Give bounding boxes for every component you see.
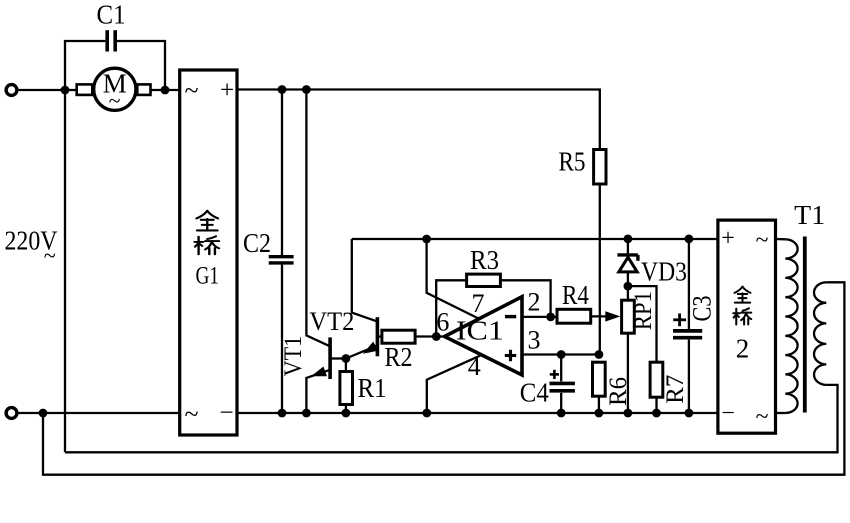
node pin3/R5/R6: [595, 350, 604, 359]
resistor R7: [650, 362, 663, 413]
node VD3 top: [624, 235, 633, 244]
svg-text:R2: R2: [385, 342, 413, 372]
svg-text:R1: R1: [358, 373, 387, 403]
svg-text:~: ~: [109, 88, 121, 113]
svg-text:+: +: [220, 77, 234, 104]
svg-text:−: −: [219, 400, 233, 427]
svg-text:~: ~: [184, 400, 198, 429]
node A (motor left junction): [61, 86, 70, 95]
node C3 top: [685, 235, 694, 244]
node C2 top: [278, 85, 287, 94]
svg-text:R7: R7: [662, 375, 689, 404]
svg-text:~: ~: [756, 228, 769, 254]
wire: IC1 pin 7 supply: [427, 239, 480, 319]
svg-text:+: +: [721, 226, 735, 252]
resistor R5: [594, 150, 606, 355]
wire: feedback loop A (secondary bottom to node A): [65, 385, 838, 452]
svg-text:2: 2: [736, 334, 750, 364]
svg-text:3: 3: [528, 326, 541, 355]
wire: J1 to motor left brush: [19, 89, 77, 91]
G1 label qiao: [195, 236, 219, 254]
svg-text:RP1: RP1: [630, 291, 657, 330]
capacitor C1: [107, 30, 115, 51]
R4 wiper arrow: [605, 311, 620, 321]
wire: IC1 pin 3 input: [522, 353, 599, 355]
node pin3/C4: [557, 350, 566, 359]
zener diode VD3: [617, 239, 638, 286]
node RP1 bottom: [624, 409, 633, 418]
node R7 bottom: [652, 409, 661, 418]
svg-text:C2: C2: [243, 228, 271, 258]
wire: R7 branch: [628, 286, 657, 362]
bridge2 label qiao: [733, 308, 751, 324]
capacitor C2: [269, 90, 294, 414]
svg-text:~: ~: [44, 244, 56, 270]
wire: 0V bottom rail G1 to bridge2: [237, 412, 718, 414]
IC1 non-inverting mark: [505, 350, 516, 361]
terminal J2 (AC neutral): [6, 408, 17, 419]
svg-text:G1: G1: [195, 263, 219, 290]
node pin7 branch: [422, 235, 431, 244]
node C4 bottom: [557, 409, 566, 418]
wire: J2 to G1: [19, 412, 180, 414]
node VT1 collector top: [302, 85, 311, 94]
svg-text:−: −: [721, 401, 735, 427]
node C2 bottom: [278, 409, 287, 418]
svg-text:2: 2: [528, 288, 541, 317]
label 220V: [5, 226, 58, 270]
transformer T1 secondary: [814, 282, 826, 385]
svg-text:C1: C1: [97, 0, 126, 30]
wire: C1 right plate to node B: [117, 41, 165, 90]
capacitor C3: [673, 239, 702, 413]
svg-text:R4: R4: [562, 280, 589, 310]
svg-text:~: ~: [756, 404, 769, 430]
svg-text:R3: R3: [470, 245, 499, 275]
svg-text:VT1: VT1: [280, 336, 307, 377]
svg-text:VD3: VD3: [641, 257, 687, 287]
wire: node A up to C1 and down to wire A: [65, 41, 105, 452]
bridge rectifier G1 box: [180, 70, 237, 435]
node B (motor right junction): [161, 86, 170, 95]
node R6 bottom: [595, 409, 604, 418]
node pin 2 / R3 right: [546, 313, 555, 322]
IC1 inverting mark: [505, 315, 516, 318]
wire: IC1 pin 2 output: [522, 316, 557, 318]
node C3 bottom: [685, 409, 694, 418]
node VD3 anode / RP1 / R7: [624, 282, 633, 291]
potentiometer RP1: [622, 286, 635, 413]
node pin 4 bottom: [422, 409, 431, 418]
terminal J1 (AC live): [6, 85, 17, 96]
T1 core: [803, 237, 807, 413]
resistor R2: [379, 330, 444, 343]
node VT1 base / VT2 emitter / R1 top: [342, 354, 351, 363]
resistor R6: [593, 362, 606, 413]
svg-text:VT2: VT2: [309, 307, 354, 336]
node VT1 emitter bottom: [302, 409, 311, 418]
transistor VT2: [346, 239, 379, 359]
svg-text:R6: R6: [605, 377, 632, 406]
wire: IC1 pin 4 supply: [427, 355, 481, 413]
wire: VT2 collector rail to bridge2 plus: [352, 238, 718, 240]
svg-text:C3: C3: [687, 296, 716, 322]
resistor R3: [436, 274, 550, 336]
bridge2 label quan: [734, 287, 750, 303]
svg-text:~: ~: [184, 76, 198, 105]
op-amp IC1 triangle: [445, 297, 523, 375]
resistor R4: [557, 309, 608, 323]
node J2 branch: [39, 409, 48, 418]
G1 label quan: [196, 211, 218, 231]
motor M: [77, 68, 151, 113]
wire: bridge2 to T1 primary bottom: [776, 412, 786, 414]
svg-text:6: 6: [436, 307, 449, 336]
bridge rectifier 2 box: [718, 220, 776, 433]
node pin 6: [432, 332, 441, 341]
wire: feedback loop B (secondary top to J2 node): [43, 282, 844, 474]
transistor VT1: [306, 90, 346, 414]
svg-text:T1: T1: [794, 200, 825, 230]
wire: bridge2 to T1 primary top: [776, 238, 786, 241]
wire: motor right brush to G1: [151, 89, 180, 91]
svg-text:R5: R5: [559, 147, 586, 177]
capacitor C4: [550, 355, 575, 414]
node R1 bottom: [342, 409, 351, 418]
transformer T1 primary: [785, 239, 797, 413]
svg-text:C4: C4: [520, 378, 549, 408]
svg-text:IC1: IC1: [456, 316, 504, 346]
resistor R1: [340, 359, 353, 414]
svg-text:7: 7: [472, 289, 485, 318]
wire: +DC top rail from G1 to R5: [237, 90, 600, 150]
